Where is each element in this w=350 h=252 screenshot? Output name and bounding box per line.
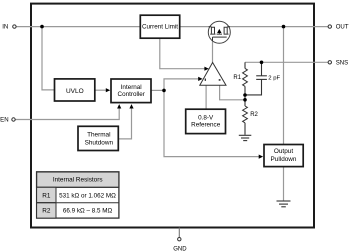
block 0.8-V reference [186, 109, 226, 133]
svg-text:OUT: OUT [336, 24, 349, 31]
wire EN to controller [15, 108, 119, 120]
svg-text:Output: Output [274, 148, 293, 155]
svg-text:IN: IN [2, 24, 8, 31]
wire junction down to output pulldown [164, 90, 260, 156]
resistor R2 [243, 106, 259, 123]
node R2 top junction [243, 98, 247, 102]
wire GND stub [178, 228, 180, 238]
resistor R1 [233, 68, 247, 86]
terminal EN [0, 117, 15, 124]
node IN junction [40, 25, 44, 29]
svg-text:Current Limit: Current Limit [142, 24, 178, 31]
svg-text:Thermal: Thermal [87, 132, 110, 139]
svg-text:UVLO: UVLO [66, 88, 84, 95]
arrowhead UVLO to controller [106, 88, 110, 92]
svg-text:66.9 kΩ – 8.5 MΩ: 66.9 kΩ – 8.5 MΩ [63, 208, 113, 215]
op-amp U1 [200, 63, 226, 86]
node OUT junction [282, 25, 286, 29]
block internal controller [111, 79, 151, 103]
wire op-amp right input to divider [220, 85, 245, 100]
svg-text:Reference: Reference [191, 121, 221, 128]
svg-text:GND: GND [173, 246, 187, 252]
svg-text:Internal Resistors: Internal Resistors [53, 177, 103, 184]
node R1 bottom junction [243, 93, 247, 97]
wire controller output to junction [152, 89, 165, 91]
svg-text:531 kΩ or 1.062 MΩ: 531 kΩ or 1.062 MΩ [59, 192, 116, 199]
svg-text:R2: R2 [42, 208, 51, 215]
svg-text:Shutdown: Shutdown [85, 139, 114, 146]
border frame [31, 4, 314, 228]
table internal resistors [37, 172, 119, 218]
svg-text:SNS: SNS [336, 60, 349, 67]
ground below output pulldown [277, 201, 291, 207]
arrowhead into output pulldown [259, 155, 263, 159]
svg-text:R2: R2 [250, 112, 258, 118]
wire UVLO to controller [96, 89, 107, 91]
svg-text:EN: EN [0, 117, 8, 124]
wire R2 leads [244, 95, 246, 106]
wire output pulldown to ground [283, 167, 285, 201]
wire current limit bottom to op-amp input [160, 39, 205, 69]
svg-text:Controller: Controller [118, 91, 145, 98]
wire gate to op-amp apex [212, 40, 214, 63]
ground below R2 [239, 135, 252, 140]
wire OUT junction down to output pulldown [283, 27, 285, 144]
svg-text:Pulldown: Pulldown [271, 156, 297, 163]
terminal SNS [328, 60, 348, 67]
terminal IN [2, 24, 16, 31]
wire SNS rail [245, 61, 329, 63]
wire IN rail to OUT [16, 26, 329, 28]
block UVLO [55, 79, 95, 101]
svg-text:0.8-V: 0.8-V [198, 114, 214, 121]
svg-text:2 pF: 2 pF [268, 76, 280, 82]
wire IN branch down to UVLO [42, 27, 55, 90]
wire R1 leads [244, 62, 246, 68]
arrowhead thermal shutdown into controller [129, 104, 133, 108]
capacitor C1 2 pF [256, 76, 280, 82]
terminal OUT [328, 24, 349, 31]
wire op-amp left input to reference [205, 85, 207, 108]
block output pulldown [264, 145, 303, 167]
arrowhead EN into controller [117, 104, 121, 108]
transistor Q1 pass FET [208, 21, 230, 43]
wire junction up to op-amp input [164, 79, 199, 91]
svg-text:R1: R1 [233, 75, 241, 81]
node cap top junction [260, 61, 264, 65]
block thermal shutdown [78, 126, 118, 150]
wire cap branch [261, 62, 263, 76]
wire thermal shutdown to controller [119, 108, 132, 139]
block current limit [140, 15, 179, 38]
svg-text:Internal: Internal [121, 84, 142, 91]
terminal GND [173, 238, 187, 252]
svg-text:R1: R1 [42, 192, 51, 199]
arrowhead current limit to op-amp input [204, 67, 208, 71]
arrowhead controller to op-amp input [198, 77, 202, 81]
node controller output junction [162, 89, 166, 93]
